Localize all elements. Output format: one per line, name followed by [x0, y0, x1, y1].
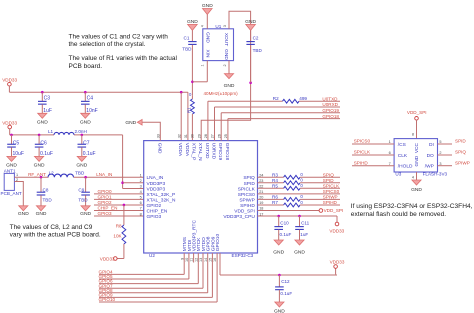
svg-text:If using ESP32-C3FN4 or ESP32-: If using ESP32-C3FN4 or ESP32-C3FH4,	[351, 203, 473, 210]
svg-text:SPID: SPID	[455, 139, 466, 144]
svg-text:GND: GND	[245, 19, 256, 25]
svg-text:U0TXD: U0TXD	[322, 96, 338, 101]
svg-text:GND: GND	[411, 187, 422, 193]
svg-text:GND: GND	[34, 163, 45, 169]
svg-text:3: 3	[223, 25, 227, 27]
svg-text:SPIHD: SPIHD	[354, 160, 369, 165]
svg-text:SPIQ: SPIQ	[243, 175, 255, 181]
svg-text:vary with the actual PCB board: vary with the actual PCB board.	[10, 232, 101, 239]
svg-text:3: 3	[140, 185, 142, 189]
svg-text:C4: C4	[87, 95, 94, 101]
svg-text:PCB board.: PCB board.	[69, 63, 103, 70]
svg-text:VDD33: VDD33	[2, 120, 17, 125]
svg-text:11: 11	[190, 258, 194, 262]
svg-text:C9: C9	[78, 187, 84, 192]
svg-text:2.0nH: 2.0nH	[75, 129, 87, 134]
svg-text:7: 7	[389, 162, 391, 166]
svg-text:GND: GND	[125, 120, 136, 126]
svg-text:VCC: VCC	[414, 142, 420, 153]
svg-text:XTAL_P: XTAL_P	[191, 143, 197, 161]
svg-text:U2: U2	[149, 253, 155, 258]
svg-text:C2: C2	[253, 36, 259, 41]
svg-text:GPIO1: GPIO1	[98, 195, 112, 200]
svg-text:40MHz(±10ppm): 40MHz(±10ppm)	[204, 91, 239, 96]
svg-text:TBD: TBD	[43, 198, 53, 203]
svg-text:TBD: TBD	[78, 198, 88, 203]
svg-text:2: 2	[439, 151, 441, 155]
svg-text:499: 499	[299, 96, 307, 101]
svg-text:/CS: /CS	[398, 142, 406, 148]
svg-text:VDD_SPI: VDD_SPI	[234, 209, 255, 215]
svg-text:VDDA: VDDA	[177, 143, 183, 157]
svg-text:VDD3P3: VDD3P3	[147, 181, 166, 187]
svg-text:GPIO18: GPIO18	[224, 143, 230, 161]
svg-text:SPICS0: SPICS0	[323, 189, 340, 194]
svg-text:SPICLK: SPICLK	[238, 186, 256, 192]
svg-text:VDD_SPI: VDD_SPI	[324, 208, 344, 213]
svg-text:32: 32	[177, 134, 181, 138]
svg-text:ANT1: ANT1	[4, 169, 16, 174]
svg-text:ESP32-C3: ESP32-C3	[232, 253, 254, 258]
svg-text:4: 4	[412, 175, 414, 179]
svg-text:GPIO3: GPIO3	[98, 211, 112, 216]
svg-text:31: 31	[184, 134, 188, 138]
svg-text:1: 1	[201, 64, 205, 66]
svg-text:GPIO2: GPIO2	[98, 200, 112, 205]
svg-text:L2: L2	[49, 170, 55, 175]
svg-text:16: 16	[213, 258, 217, 262]
svg-text:VDD3P3_CPU: VDD3P3_CPU	[223, 214, 255, 220]
svg-text:GPIO0: GPIO0	[98, 189, 112, 194]
svg-text:R3: R3	[272, 172, 278, 177]
svg-text:GND: GND	[80, 211, 91, 217]
svg-text:the selection of the crystal.: the selection of the crystal.	[69, 41, 146, 48]
svg-text:R7: R7	[272, 200, 278, 205]
svg-text:3: 3	[439, 162, 441, 166]
svg-text:RF_ANT: RF_ANT	[28, 172, 46, 177]
svg-text:GPIO18: GPIO18	[322, 114, 339, 119]
svg-text:GND: GND	[294, 249, 305, 255]
svg-text:C6: C6	[40, 141, 47, 147]
svg-text:U0RXD: U0RXD	[211, 143, 217, 160]
svg-text:/WP: /WP	[425, 164, 434, 170]
svg-text:TBD: TBD	[75, 170, 85, 175]
svg-text:VDD33: VDD33	[100, 256, 115, 261]
svg-text:TBD: TBD	[182, 46, 192, 51]
svg-text:R8: R8	[116, 224, 122, 229]
svg-text:8: 8	[412, 132, 414, 136]
svg-text:U3: U3	[395, 172, 401, 177]
svg-text:The value of R1 varies with th: The value of R1 varies with the actual	[69, 55, 178, 62]
svg-text:DO: DO	[427, 153, 434, 159]
svg-text:C12: C12	[281, 279, 290, 284]
svg-text:U0RXD: U0RXD	[322, 102, 338, 107]
svg-text:5: 5	[140, 196, 142, 200]
svg-text:GPIO10: GPIO10	[215, 234, 221, 252]
svg-text:4: 4	[140, 190, 142, 194]
svg-text:SPIHD: SPIHD	[323, 200, 338, 205]
svg-text:XTAL_32K_P: XTAL_32K_P	[147, 192, 176, 198]
svg-text:L1: L1	[48, 129, 54, 134]
svg-text:external flash could be remove: external flash could be removed.	[351, 211, 446, 218]
svg-text:SPID: SPID	[323, 178, 334, 183]
svg-text:VDD33: VDD33	[329, 228, 344, 233]
svg-text:U0TXD: U0TXD	[204, 143, 210, 159]
svg-text:R4: R4	[272, 178, 278, 183]
svg-text:10K: 10K	[113, 234, 122, 239]
svg-text:The values of C1 and C2 vary w: The values of C1 and C2 vary with	[69, 34, 169, 41]
svg-text:XOUT: XOUT	[223, 33, 229, 46]
svg-text:7: 7	[140, 207, 142, 211]
svg-text:CLK: CLK	[398, 153, 408, 159]
svg-text:C11: C11	[301, 221, 310, 226]
svg-text:VDD33: VDD33	[330, 259, 345, 264]
svg-text:0.1uF: 0.1uF	[280, 291, 292, 296]
svg-text:FLASH-3V3: FLASH-3V3	[423, 172, 448, 177]
svg-text:12: 12	[194, 258, 198, 262]
svg-text:C10: C10	[280, 221, 289, 226]
svg-text:SPICLK: SPICLK	[354, 150, 371, 155]
svg-text:SPICS0: SPICS0	[238, 192, 255, 198]
svg-text:GND: GND	[223, 49, 229, 60]
svg-text:GND: GND	[274, 308, 285, 313]
svg-text:C8: C8	[43, 187, 49, 192]
svg-text:GND: GND	[187, 19, 198, 25]
svg-text:2: 2	[223, 64, 227, 66]
svg-text:CHIP_EN: CHIP_EN	[147, 209, 168, 215]
svg-text:XTAL_N: XTAL_N	[197, 143, 203, 161]
svg-text:SPIQ: SPIQ	[323, 172, 334, 177]
svg-text:GPIO19: GPIO19	[322, 108, 339, 113]
svg-text:6: 6	[389, 151, 391, 155]
svg-text:SPIQ: SPIQ	[455, 150, 466, 155]
svg-text:R2: R2	[273, 96, 279, 101]
svg-text:R6: R6	[272, 195, 278, 200]
svg-text:C3: C3	[44, 95, 51, 101]
svg-text:1: 1	[16, 173, 18, 177]
svg-text:XTAL_32K_N: XTAL_32K_N	[147, 197, 177, 203]
svg-text:SPIWP: SPIWP	[239, 197, 254, 203]
svg-text:GPIO19: GPIO19	[217, 143, 223, 161]
svg-text:SPICS0: SPICS0	[354, 139, 371, 144]
svg-text:5: 5	[439, 140, 441, 144]
svg-text:PCB_ANT: PCB_ANT	[1, 191, 22, 196]
svg-text:XIN: XIN	[205, 50, 211, 59]
svg-text:GND: GND	[157, 143, 163, 154]
svg-text:1: 1	[140, 173, 142, 177]
svg-text:C5: C5	[13, 141, 20, 147]
svg-text:U1: U1	[215, 24, 221, 29]
svg-text:29: 29	[197, 134, 201, 138]
svg-text:4: 4	[201, 25, 205, 27]
svg-text:GND: GND	[205, 32, 211, 43]
svg-text:GPIO2: GPIO2	[147, 203, 162, 209]
svg-text:GND: GND	[202, 3, 213, 9]
svg-text:2: 2	[140, 179, 142, 183]
svg-text:8: 8	[140, 212, 142, 216]
svg-text:GPIO10: GPIO10	[99, 297, 116, 302]
svg-text:VDD3P3: VDD3P3	[147, 186, 166, 192]
svg-text:/HOLD: /HOLD	[398, 164, 413, 170]
svg-text:SPID: SPID	[244, 181, 256, 187]
svg-text:GND: GND	[36, 211, 47, 217]
svg-text:VDD_SPI: VDD_SPI	[407, 110, 427, 115]
svg-text:The values of C8, L2 and C9: The values of C8, L2 and C9	[10, 224, 93, 231]
svg-text:TBD: TBD	[253, 48, 263, 53]
svg-text:VDDA: VDDA	[184, 143, 190, 157]
svg-text:1uF: 1uF	[300, 232, 308, 237]
svg-text:VDD33: VDD33	[2, 77, 17, 82]
svg-text:GND: GND	[414, 155, 420, 166]
svg-text:30: 30	[191, 134, 195, 138]
svg-text:DI: DI	[429, 142, 434, 148]
svg-text:GND: GND	[224, 83, 235, 89]
svg-text:GND: GND	[80, 120, 91, 126]
svg-text:LNA_IN: LNA_IN	[147, 175, 164, 181]
svg-text:GND: GND	[273, 249, 284, 255]
svg-text:SPIWP: SPIWP	[455, 160, 470, 165]
svg-text:GND: GND	[18, 211, 29, 217]
svg-text:R5: R5	[272, 183, 278, 188]
svg-text:SPICLK: SPICLK	[323, 183, 340, 188]
svg-text:0.1uF: 0.1uF	[280, 232, 292, 237]
svg-text:1: 1	[389, 140, 391, 144]
svg-text:CHIP_EN: CHIP_EN	[98, 206, 118, 211]
svg-text:LNA_IN: LNA_IN	[96, 172, 112, 177]
svg-text:GND: GND	[76, 163, 87, 169]
svg-text:GPIO3: GPIO3	[147, 214, 162, 220]
svg-text:GND: GND	[37, 120, 48, 126]
svg-text:C7: C7	[83, 141, 90, 147]
svg-text:C1: C1	[184, 35, 190, 40]
svg-text:R1: R1	[187, 107, 192, 113]
svg-text:SPIWP: SPIWP	[323, 195, 338, 200]
svg-text:SPIHD: SPIHD	[240, 203, 255, 209]
svg-text:6: 6	[140, 201, 142, 205]
